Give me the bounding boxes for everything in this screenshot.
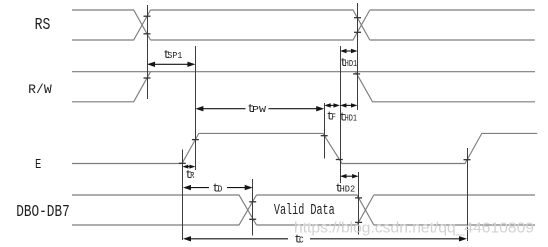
svg-text:F: F (331, 113, 336, 123)
svg-text:https://blog.csdn.net/qq_44610: https://blog.csdn.net/qq_44610809 (294, 220, 534, 237)
svg-text:HD2: HD2 (340, 184, 356, 194)
svg-text:RS: RS (35, 15, 51, 34)
svg-text:PW: PW (252, 105, 267, 115)
svg-text:D: D (218, 184, 223, 194)
svg-text:R: R (190, 171, 195, 181)
svg-text:HD1: HD1 (345, 59, 358, 69)
svg-text:SP1: SP1 (167, 51, 182, 61)
svg-text:E: E (35, 158, 41, 173)
svg-text:HD1: HD1 (345, 114, 357, 124)
svg-text:R/W: R/W (28, 82, 52, 97)
svg-text:C: C (299, 236, 304, 246)
svg-text:Valid Data: Valid Data (274, 202, 335, 219)
svg-text:DBO-DB7: DBO-DB7 (16, 202, 69, 221)
